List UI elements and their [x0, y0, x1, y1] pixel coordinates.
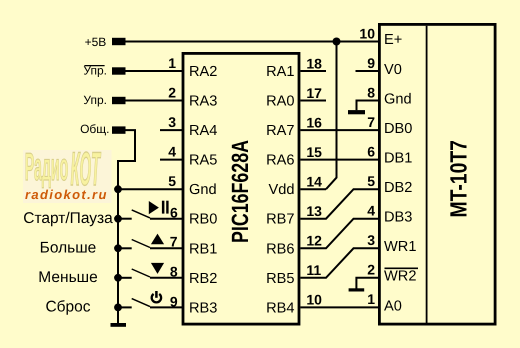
svg-text:5: 5: [367, 173, 375, 189]
svg-text:RB1: RB1: [189, 241, 217, 257]
svg-text:16: 16: [306, 114, 322, 130]
svg-text:Gnd: Gnd: [384, 91, 412, 107]
svg-text:3: 3: [168, 114, 176, 130]
svg-text:6: 6: [170, 204, 178, 220]
svg-text:RA1: RA1: [266, 64, 294, 80]
svg-text:RA5: RA5: [189, 153, 217, 169]
svg-text:9: 9: [170, 293, 178, 309]
svg-text:DB3: DB3: [384, 210, 412, 226]
svg-text:PIC16F628A: PIC16F628A: [227, 140, 253, 243]
svg-text:1: 1: [168, 55, 176, 71]
svg-text:Больше: Больше: [40, 240, 97, 257]
svg-text:Старт/Пауза: Старт/Пауза: [23, 210, 113, 227]
svg-text:DB1: DB1: [384, 151, 412, 167]
svg-text:3: 3: [367, 232, 375, 248]
svg-text:radiokot.ru: radiokot.ru: [25, 187, 108, 202]
svg-text:Vdd: Vdd: [269, 182, 295, 198]
svg-text:10: 10: [359, 25, 375, 41]
svg-text:RB5: RB5: [266, 271, 294, 287]
svg-text:2: 2: [367, 262, 375, 278]
svg-text:2: 2: [168, 84, 176, 100]
svg-text:4: 4: [168, 143, 176, 159]
svg-text:A0: A0: [384, 298, 402, 314]
svg-text:E+: E+: [384, 32, 402, 48]
svg-text:1: 1: [367, 291, 375, 307]
svg-text:V0: V0: [384, 62, 402, 78]
svg-text:11: 11: [306, 262, 321, 278]
svg-text:DB0: DB0: [384, 121, 412, 137]
svg-text:7: 7: [367, 114, 375, 130]
svg-text:RB6: RB6: [266, 241, 294, 257]
svg-text:RB7: RB7: [266, 212, 294, 228]
svg-text:RA3: RA3: [189, 94, 217, 110]
svg-text:15: 15: [306, 144, 322, 160]
svg-text:17: 17: [306, 85, 322, 101]
svg-text:Gnd: Gnd: [189, 182, 217, 198]
svg-text:Сброс: Сброс: [45, 299, 90, 316]
svg-text:WR2: WR2: [384, 269, 416, 285]
svg-text:14: 14: [306, 174, 322, 190]
svg-text:RB2: RB2: [189, 271, 217, 287]
svg-text:6: 6: [367, 143, 375, 159]
svg-text:7: 7: [170, 233, 178, 249]
svg-text:Упр.: Упр.: [83, 93, 107, 107]
svg-text:RB4: RB4: [266, 300, 294, 316]
svg-text:8: 8: [367, 84, 375, 100]
svg-text:8: 8: [170, 264, 178, 280]
svg-text:12: 12: [306, 233, 322, 249]
svg-text:DB2: DB2: [384, 180, 412, 196]
svg-text:10: 10: [306, 292, 322, 308]
svg-text:Общ.: Общ.: [80, 122, 109, 136]
svg-text:RA6: RA6: [266, 153, 294, 169]
svg-text:5: 5: [168, 173, 176, 189]
svg-text:13: 13: [306, 203, 322, 219]
svg-text:WR1: WR1: [384, 239, 416, 255]
svg-text:9: 9: [367, 55, 375, 71]
svg-text:Меньше: Меньше: [38, 269, 97, 286]
svg-text:RA2: RA2: [189, 64, 217, 80]
svg-text:18: 18: [306, 55, 322, 71]
svg-text:Радио: Радио: [25, 146, 68, 190]
svg-text:+5В: +5В: [85, 35, 107, 49]
svg-text:RA7: RA7: [266, 123, 294, 139]
svg-text:RA0: RA0: [266, 94, 294, 110]
svg-text:MT-10T7: MT-10T7: [446, 140, 472, 217]
svg-text:RA4: RA4: [189, 123, 217, 139]
svg-text:RB0: RB0: [189, 212, 217, 228]
svg-text:RB3: RB3: [189, 300, 217, 316]
svg-text:4: 4: [367, 203, 375, 219]
